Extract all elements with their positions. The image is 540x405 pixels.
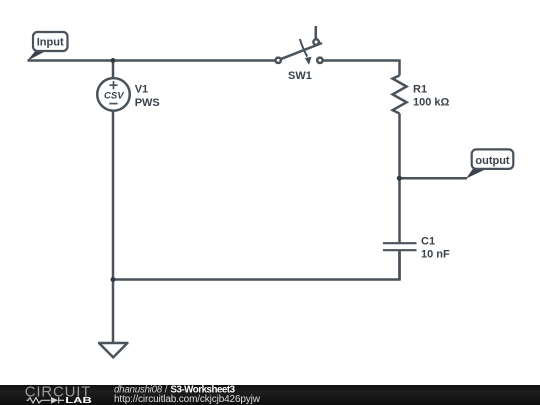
svg-text:R1: R1 <box>413 83 427 95</box>
svg-text:Input: Input <box>37 36 64 48</box>
svg-text:C1: C1 <box>421 235 435 247</box>
svg-text:10 nF: 10 nF <box>421 248 450 260</box>
svg-text:http://circuitlab.com/ckjcjb42: http://circuitlab.com/ckjcjb426pyjw <box>114 394 261 405</box>
svg-text:100 kΩ: 100 kΩ <box>413 97 450 109</box>
svg-text:PWS: PWS <box>135 97 160 109</box>
svg-text:CSV: CSV <box>104 91 124 102</box>
svg-text:LAB: LAB <box>65 396 92 405</box>
svg-text:SW1: SW1 <box>288 70 312 82</box>
svg-text:output: output <box>475 155 510 167</box>
svg-text:V1: V1 <box>135 83 148 95</box>
